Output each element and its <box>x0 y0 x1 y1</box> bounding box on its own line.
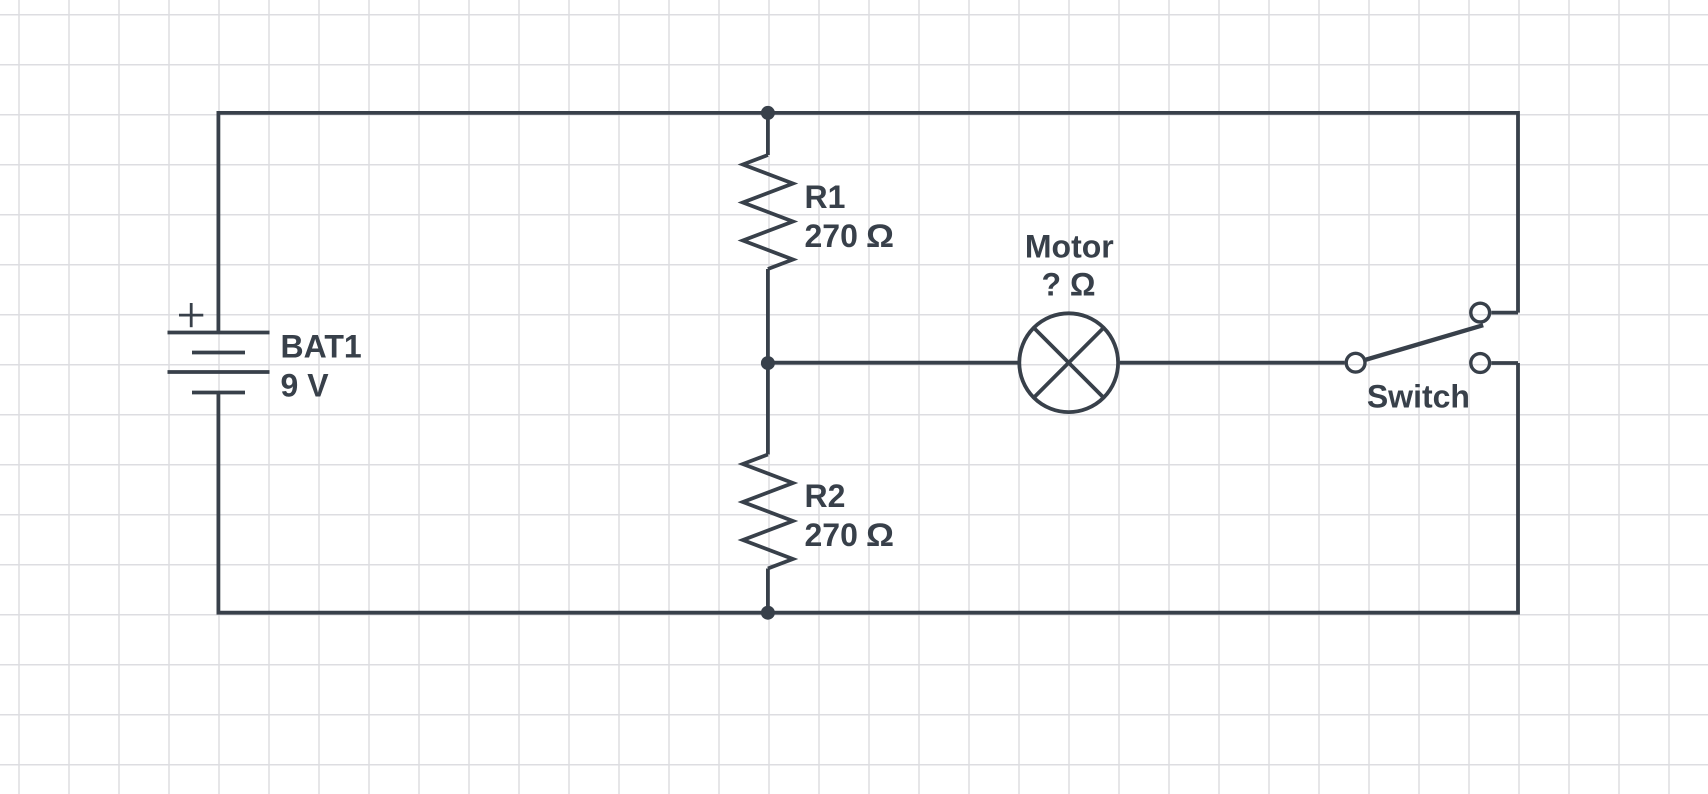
wire switch throw2 to right rail <box>1491 361 1518 365</box>
battery plus sign <box>179 303 203 327</box>
motor M1 circle <box>1019 313 1118 412</box>
wire R2 to bottom rail <box>766 569 770 613</box>
wire mid node to motor <box>768 361 1018 365</box>
battery BAT1 plate long top <box>168 331 270 335</box>
battery BAT1 plate short 2 <box>192 391 245 395</box>
svg-text:R2: R2 <box>805 478 846 514</box>
junction node bottom <box>761 606 775 620</box>
motor X diagonal 2 <box>1034 328 1104 398</box>
battery BAT1 plate long 2 <box>168 370 270 374</box>
resistor R2 <box>743 455 793 569</box>
svg-text:? Ω: ? Ω <box>1041 267 1095 303</box>
wire motor to switch pole <box>1120 361 1345 365</box>
resistor R1 <box>743 155 793 269</box>
svg-text:R1: R1 <box>805 179 846 215</box>
wire top rail <box>218 113 1518 333</box>
svg-text:Ω: Ω <box>866 218 894 254</box>
wire bottom rail <box>218 363 1518 613</box>
junction node mid <box>761 356 775 370</box>
svg-text:Motor: Motor <box>1025 228 1114 264</box>
switch throw2 terminal circle <box>1471 354 1490 373</box>
switch pole terminal circle <box>1346 353 1365 372</box>
svg-text:Ω: Ω <box>866 517 894 553</box>
wire resistor branch R1 leads <box>766 113 770 155</box>
svg-text:270: 270 <box>805 218 858 254</box>
junction node top <box>761 106 775 120</box>
svg-text:9 V: 9 V <box>281 368 330 404</box>
switch throw1 terminal circle <box>1471 303 1490 322</box>
switch lever <box>1365 325 1483 360</box>
battery BAT1 plate short <box>192 351 245 355</box>
svg-text:BAT1: BAT1 <box>281 329 362 365</box>
svg-text:Switch: Switch <box>1367 378 1470 414</box>
svg-text:270: 270 <box>805 517 858 553</box>
wire switch throw1 to right rail <box>1491 311 1518 315</box>
motor X diagonal 1 <box>1034 328 1104 398</box>
wire R1 to mid node <box>766 269 770 455</box>
